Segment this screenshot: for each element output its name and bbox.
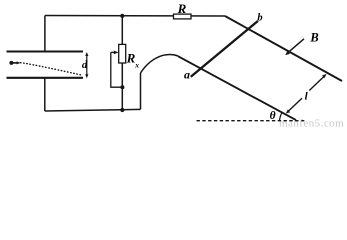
svg-text:d: d	[82, 59, 88, 71]
resistor Rx	[119, 44, 126, 63]
wire Rx branch upper	[121, 16, 123, 44]
svg-text:R: R	[126, 51, 136, 66]
capacitor top plate	[7, 50, 84, 52]
svg-text:x: x	[134, 61, 139, 70]
wire S-curve to rail	[141, 54, 179, 73]
wire bottom plate stub	[44, 78, 46, 111]
rod ab	[191, 21, 258, 77]
particle velocity arrow	[13, 62, 18, 64]
node junction rheostat tap	[120, 85, 124, 89]
resistor R	[174, 14, 192, 19]
rail L2 bottom	[178, 56, 296, 120]
node junction bottom	[120, 108, 124, 112]
wire left vertical to top plate	[44, 16, 46, 52]
wire top horizontal	[45, 15, 225, 18]
wire rheostat slider bracket	[111, 52, 123, 87]
node junction top	[120, 14, 124, 18]
rail L1 top	[225, 16, 342, 81]
svg-text:b: b	[257, 12, 262, 23]
svg-text:l: l	[305, 91, 309, 103]
wire right vertical riser	[140, 73, 142, 109]
wire bottom horizontal	[45, 109, 141, 111]
svg-text:B: B	[309, 30, 318, 44]
angle arc	[280, 113, 283, 121]
svg-text:R: R	[177, 1, 187, 16]
wire rheostat arrow	[111, 51, 115, 53]
dimension arrow l upper	[309, 76, 324, 90]
wire Rx branch lower	[121, 63, 123, 110]
dimension arrow l lower	[289, 98, 302, 111]
svg-text:a: a	[184, 68, 190, 82]
dimension arrow d	[86, 54, 88, 77]
dotted trajectory	[21, 63, 84, 76]
particle dot	[9, 61, 13, 65]
capacitor bottom plate	[7, 77, 84, 79]
dashed baseline	[197, 120, 307, 122]
svg-text:manfen5.com: manfen5.com	[279, 117, 344, 127]
field arrow B	[288, 39, 304, 53]
